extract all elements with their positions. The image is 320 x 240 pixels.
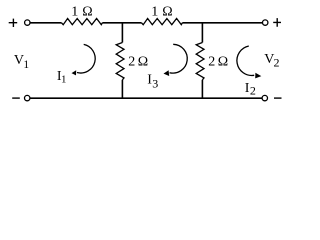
minus sign bottom-right	[274, 97, 282, 99]
wire bottom rail	[30, 97, 262, 99]
mesh current arc I3	[170, 44, 188, 73]
terminal bottom-right	[262, 95, 267, 100]
svg-text:1 Ω: 1 Ω	[71, 5, 93, 20]
wire top-left segment	[30, 22, 61, 24]
wire top-middle segment	[102, 22, 141, 24]
resistor R3 2ohm vertical zigzag	[116, 43, 124, 80]
arrowhead I3	[164, 70, 170, 76]
svg-text:2 Ω: 2 Ω	[128, 54, 148, 69]
resistor R4 2ohm vertical zigzag	[196, 43, 204, 80]
wire R4 bottom lead	[201, 80, 203, 98]
mesh current arc I2	[237, 46, 254, 75]
wire R3 top lead	[121, 23, 123, 43]
wire R4 top lead	[201, 23, 203, 43]
terminal bottom-left	[25, 95, 30, 100]
resistor R1 1ohm zigzag	[62, 19, 103, 25]
arrowhead I1	[72, 70, 77, 75]
resistor R2 1ohm zigzag	[142, 19, 183, 25]
mesh current arc I1	[77, 44, 95, 73]
arrowhead I2	[255, 73, 261, 79]
svg-text:I2: I2	[245, 81, 256, 98]
terminal top-left	[25, 20, 30, 25]
wire R3 bottom lead	[121, 80, 123, 98]
svg-text:V2: V2	[264, 52, 279, 69]
plus sign top-right	[273, 18, 281, 27]
svg-text:2 Ω: 2 Ω	[208, 54, 228, 69]
wire top-right segment	[182, 22, 262, 24]
plus sign top-left	[9, 19, 18, 27]
minus sign bottom-left	[12, 97, 20, 99]
svg-text:1 Ω: 1 Ω	[151, 5, 173, 20]
terminal top-right	[263, 20, 268, 25]
